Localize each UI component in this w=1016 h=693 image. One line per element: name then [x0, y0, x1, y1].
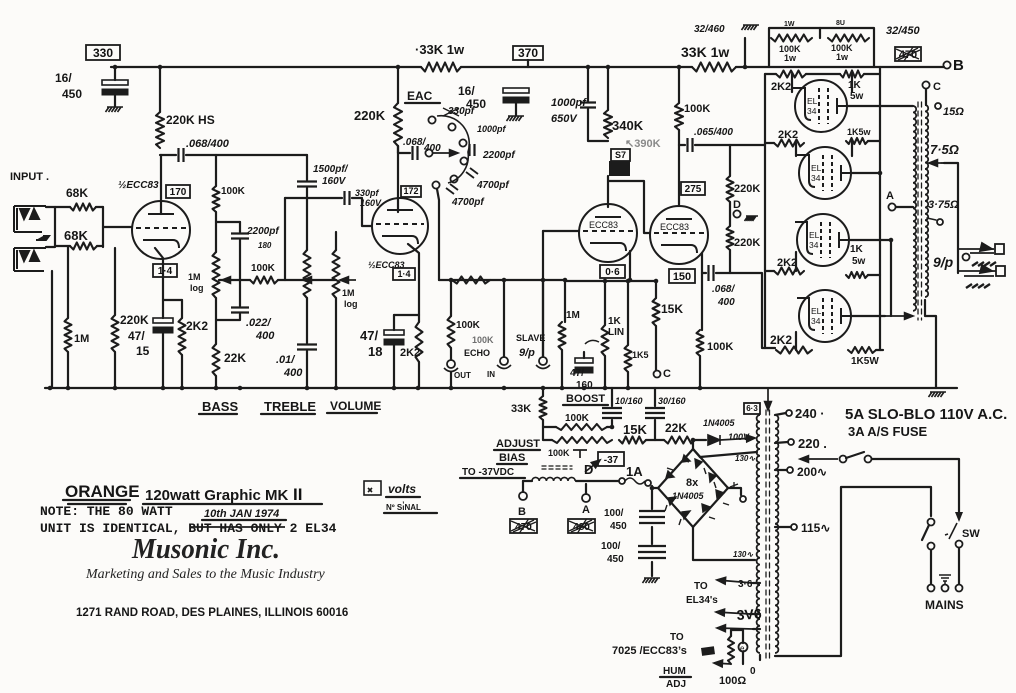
junction bus 700: [698, 386, 703, 391]
svg-text:Musonic Inc.: Musonic Inc.: [131, 533, 280, 565]
wire volume bottom: [335, 298, 337, 388]
wire 340K top: [607, 67, 609, 110]
svg-text:HUM: HUM: [663, 666, 686, 677]
svg-text:16/: 16/: [458, 84, 475, 98]
resistor 100K slope: [213, 186, 220, 212]
wire B+ rail seg2: [461, 66, 692, 68]
ground by 32/460: [742, 25, 760, 30]
switch contact 5: [450, 175, 457, 182]
wire 130 upper tap: [693, 449, 700, 457]
svg-text:3·6: 3·6: [738, 579, 753, 590]
junction bus 504: [502, 386, 507, 391]
wire FAC to preamp bus: [437, 189, 439, 280]
svg-text:240 ·: 240 ·: [795, 406, 825, 421]
svg-text:1w: 1w: [836, 52, 849, 62]
capacitor 16/450 second: [503, 88, 529, 103]
output transformer secondary: [925, 105, 928, 297]
node label 170 box: [166, 185, 190, 198]
junction bridge left: [650, 486, 655, 491]
svg-text:33K 1w: 33K 1w: [681, 44, 729, 60]
speaker jack 1: [958, 243, 1004, 266]
svg-text:32/460: 32/460: [694, 24, 725, 35]
wire V4 cathode: [701, 253, 703, 273]
wire 2200pf branch top: [216, 221, 240, 223]
svg-text:32/450: 32/450: [886, 25, 921, 37]
underline ADJUST: [494, 449, 540, 451]
pentode EL34 no.3: [795, 214, 849, 266]
wire 33K to row1: [543, 420, 556, 427]
wire V2 plate lead: [397, 146, 399, 212]
output transformer primary: [913, 106, 916, 311]
node label 370 box: [513, 46, 543, 60]
capacitor 330pf coupling: [345, 191, 350, 205]
wire HT mid2: [651, 527, 653, 544]
wire bridge top feed: [692, 440, 694, 449]
wire 2K2 bottom: [181, 355, 183, 388]
bridge rectifier diamond: [658, 449, 728, 527]
PT core dash 1: [765, 410, 767, 658]
strikethrough BUT HAS ONLY: [190, 526, 285, 528]
node label 330 box: [86, 45, 120, 60]
wire 1M div bottom: [561, 350, 563, 388]
svg-text:volts: volts: [388, 482, 416, 496]
svg-text:INPUT .: INPUT .: [10, 171, 49, 183]
wire bus end drop: [935, 385, 937, 388]
svg-text:5A SLO-BLO 110V A.C.: 5A SLO-BLO 110V A.C.: [845, 406, 1007, 423]
junction rail 115: [113, 65, 118, 70]
junction bus 163: [161, 386, 166, 391]
capacitor 16/450 first: [102, 80, 128, 95]
wire V3 plate lead: [607, 176, 609, 207]
terminal D: [733, 210, 740, 217]
resistor 2K2 g2: [774, 140, 804, 147]
wire 7.5 to jacks: [944, 163, 958, 273]
junction echo in drop: [502, 278, 507, 283]
wire FAC lead: [398, 152, 410, 154]
node label 275 box: [681, 182, 705, 195]
underline TO37: [460, 477, 525, 479]
triode V1 half ECC83: [132, 201, 190, 259]
capacitor .068/400 interstage: [179, 148, 184, 162]
junction bus 216: [214, 386, 219, 391]
wiper arrow volume: [340, 277, 356, 284]
wire A jack drop: [585, 484, 587, 494]
svg-text:2K2: 2K2: [400, 347, 420, 359]
switch contact 3: [459, 139, 466, 146]
underline volts: [386, 496, 420, 498]
arrowhead down SW: [955, 512, 963, 522]
capacitor 47/15 cathode: [153, 318, 173, 333]
resistor 2K2 V2 cathode: [416, 322, 423, 362]
svg-text:100/: 100/: [601, 541, 621, 552]
svg-text:100K: 100K: [565, 413, 590, 424]
wire plate4 to OT: [851, 315, 885, 317]
wire .022 to bass bottom: [216, 314, 240, 320]
resistor 15K bias: [619, 437, 646, 444]
wire 15K bot: [655, 326, 657, 370]
capacitor 30/160: [645, 408, 665, 418]
wire 1M drop top: [67, 247, 69, 318]
svg-text:650V: 650V: [551, 113, 578, 125]
wire grid to V1: [103, 226, 132, 228]
svg-text:15K: 15K: [661, 302, 683, 316]
junction 15K: [654, 279, 659, 284]
mains pole1 top: [928, 519, 935, 526]
wire B+ rail seg3: [736, 66, 944, 68]
terminal C: [922, 81, 929, 88]
wire 10/160 bot: [611, 420, 613, 427]
capacitor 10/160: [602, 408, 622, 418]
node label -37 box: [598, 452, 624, 466]
tap 200 lead: [775, 469, 787, 471]
svg-text:2K2: 2K2: [771, 81, 791, 93]
selector contact 2: [865, 456, 872, 463]
wire g3 into tube: [795, 252, 797, 271]
wire k3 to screen rail: [868, 274, 880, 276]
wire 2K2 top: [181, 300, 183, 318]
svg-text:·33K 1w: ·33K 1w: [415, 42, 465, 57]
wire grid bus vertical: [764, 74, 766, 348]
wiper arrow bass: [222, 277, 242, 284]
switch contact 2: [448, 123, 455, 130]
resistor 1K 5w k1: [840, 71, 864, 78]
power transformer secondary winding: [757, 415, 760, 653]
wire treble bot1: [306, 298, 308, 343]
earth symbol: [939, 575, 951, 585]
capacitor .068/400 FAC: [413, 146, 418, 160]
wire 10/160 top: [611, 388, 613, 406]
svg-text:EL: EL: [807, 96, 818, 106]
tap 3.75 link: [927, 218, 936, 220]
svg-text:8U: 8U: [836, 20, 845, 27]
svg-text:TREBLE: TREBLE: [264, 399, 316, 414]
terminal B heater: [519, 492, 527, 500]
wire volume top: [335, 232, 337, 250]
wire 68K top feed: [55, 206, 70, 208]
svg-text:2K2: 2K2: [770, 333, 792, 347]
wire .065 right: [695, 144, 765, 146]
svg-text:TO: TO: [694, 581, 708, 592]
wire selector to SW: [872, 459, 959, 516]
svg-text:1M: 1M: [566, 310, 580, 321]
svg-text:BASS: BASS: [202, 399, 238, 414]
svg-text:B: B: [953, 57, 964, 74]
mains pole1 wire: [930, 550, 932, 584]
wire 2K2 branch: [163, 299, 182, 301]
svg-text:VOLUME: VOLUME: [330, 399, 381, 413]
wire echo in drop: [503, 280, 505, 356]
capacitor 100/450 first: [639, 511, 665, 523]
svg-text:68K: 68K: [66, 186, 88, 200]
resistor 2K2 g4: [776, 347, 812, 354]
svg-text:1·4: 1·4: [397, 269, 410, 279]
potentiometer bias 100K: [573, 450, 587, 458]
terminal 220: [788, 439, 794, 445]
svg-text:100K: 100K: [684, 103, 710, 115]
humdinger wiper: [739, 643, 748, 652]
wire echo jack gnd: [450, 372, 452, 388]
wire slave drop: [542, 280, 544, 356]
svg-text:BOOST: BOOST: [566, 393, 605, 405]
svg-text:.068/: .068/: [712, 284, 735, 295]
svg-text:ECC83: ECC83: [589, 220, 618, 230]
resistor 100K bias row1: [556, 424, 607, 430]
svg-text:BIAS: BIAS: [499, 452, 525, 464]
wire jack frame: [46, 207, 55, 247]
capacitor 4700pf FAC lower: [446, 184, 458, 194]
svg-text:1M: 1M: [342, 288, 355, 298]
svg-text:9/p: 9/p: [933, 254, 954, 270]
terminal 3.75: [937, 219, 943, 225]
wire 330pf feed: [285, 197, 342, 199]
resistor 2K2 g3: [774, 268, 804, 275]
junction bus 182: [180, 386, 185, 391]
arrow 3V6: [716, 609, 750, 616]
wire 1K lin bot: [604, 356, 606, 388]
wire 100K 1w bracket: [769, 28, 874, 67]
ground below 16/450 second: [507, 116, 525, 121]
svg-text:150: 150: [673, 271, 691, 283]
resistor 220K HS: [156, 112, 164, 148]
volts checkbox: [364, 481, 381, 495]
resistor 1K 5w k3: [846, 272, 868, 278]
wire 47/18 branch: [394, 314, 419, 316]
capacitor .022/400 tone: [231, 308, 249, 313]
scribble over 330pf: [443, 108, 459, 116]
wire C to coil: [925, 89, 927, 105]
svg-text:A: A: [582, 504, 590, 516]
wire 100K 1W top: [678, 67, 680, 103]
triode V2 half ECC83: [372, 198, 428, 254]
speaker jack 2: [958, 265, 1005, 288]
resistor 15K PI tail: [653, 298, 660, 326]
svg-text:16/: 16/: [55, 71, 72, 85]
slave hook: [536, 365, 550, 369]
svg-text:100K: 100K: [221, 186, 246, 197]
junction bus 628: [626, 386, 631, 391]
resistor 100K slave link: [452, 277, 490, 284]
junction ecap 10-160: [610, 425, 615, 430]
svg-text:2200pf: 2200pf: [246, 226, 280, 237]
junction rail 608: [606, 65, 611, 70]
svg-text:400: 400: [717, 297, 735, 308]
svg-text:4700pf: 4700pf: [476, 180, 510, 191]
svg-text:10/160: 10/160: [615, 396, 643, 406]
potentiometer VOLUME 1M log: [333, 250, 340, 298]
junction plate3: [889, 238, 894, 243]
svg-text:SLAVE: SLAVE: [516, 333, 545, 343]
svg-text:450: 450: [610, 521, 627, 532]
svg-text:330: 330: [93, 46, 113, 60]
wire row3 left: [765, 270, 774, 272]
junction rail 588: [586, 65, 591, 70]
wire plate2 join: [851, 172, 880, 174]
wire PI out to grid bus: [716, 273, 775, 348]
underline BIAS: [497, 463, 527, 465]
svg-text:370: 370: [518, 46, 538, 60]
dark blob 180: [701, 646, 715, 656]
capacitor 47/160: [575, 358, 593, 373]
resistor 33K 1w second: [692, 63, 736, 72]
wire 1K5 top: [627, 280, 629, 345]
mains pin 1: [928, 585, 935, 592]
svg-text:220K: 220K: [734, 183, 760, 195]
svg-text:LIN: LIN: [608, 327, 624, 338]
potentiometer TREBLE: [304, 250, 311, 298]
capacitor 47/18 cathode: [384, 330, 404, 345]
svg-text:1K: 1K: [848, 80, 862, 91]
svg-text:100K: 100K: [251, 263, 276, 274]
svg-text:220K: 220K: [354, 108, 386, 123]
ground HT caps: [643, 578, 661, 583]
terminal C lower: [654, 371, 661, 378]
svg-text:1000pf: 1000pf: [477, 124, 507, 134]
svg-text:EAC: EAC: [407, 89, 433, 103]
wire bass pot bottom: [215, 298, 217, 344]
svg-text:B: B: [518, 506, 526, 518]
fuse end 1: [619, 478, 625, 484]
wire bracket mid tick: [819, 28, 821, 38]
wire HT mid: [651, 486, 653, 509]
resistor 220K cathode-ish: [112, 315, 119, 352]
svg-text:6·3: 6·3: [746, 404, 758, 413]
wire B+ rail seg1: [111, 66, 421, 68]
wire 2200pf v1: [239, 222, 241, 232]
svg-text:34: 34: [811, 316, 821, 326]
svg-text:D: D: [584, 462, 593, 477]
wire row2 left: [765, 142, 774, 144]
SW slash: [945, 523, 957, 539]
wire bias row2 start: [543, 427, 552, 440]
wire 130 tap lead: [700, 452, 757, 457]
junction 1M div: [563, 278, 568, 283]
capacitor 1000pf 650V: [580, 103, 596, 108]
node label 172 box: [401, 186, 421, 197]
mains pole2 bottom: [956, 541, 963, 548]
wire 220K mid drop bot: [114, 352, 116, 388]
svg-text:3A A/S FUSE: 3A A/S FUSE: [848, 424, 928, 439]
svg-text:1N4005: 1N4005: [672, 491, 705, 501]
svg-text:330pf: 330pf: [355, 188, 380, 198]
svg-text:2K2: 2K2: [777, 257, 797, 269]
node label S7 box: [611, 149, 630, 161]
svg-text:Marketing and Sales to the Mus: Marketing and Sales to the Music Industr…: [85, 567, 326, 582]
terminal B: [943, 61, 950, 68]
wire 47/18 drop: [393, 315, 395, 330]
arrow bias to PT: [720, 435, 755, 442]
echo out hook: [444, 368, 458, 372]
junction bridge feed: [691, 438, 696, 443]
svg-text:1K5: 1K5: [632, 350, 649, 360]
fuse squiggle: [625, 478, 645, 484]
wire S7 to V4 grid: [609, 181, 650, 233]
wire V2 plate from rail: [397, 67, 399, 103]
wire 370 box stub: [527, 60, 529, 67]
wire divider mid: [729, 202, 731, 226]
svg-text:100K: 100K: [548, 448, 570, 458]
wire 30/160 bot: [654, 420, 656, 440]
svg-text:1K5W: 1K5W: [851, 356, 879, 367]
svg-text:log: log: [190, 283, 204, 293]
svg-text:400: 400: [255, 330, 275, 342]
junction bus 543: [541, 386, 546, 391]
wire g2 into tube: [795, 143, 797, 156]
OT core dash 2: [921, 102, 923, 320]
wire 1K5 bot: [627, 372, 629, 388]
resistor 22K bass: [213, 344, 220, 376]
switch contact 6: [432, 181, 439, 188]
junction rail 160: [158, 65, 163, 70]
tap 240 lead: [775, 413, 786, 415]
wire jack sleeve drop: [51, 271, 53, 388]
mains pin earth: [942, 585, 949, 592]
wire V3 grid drop: [542, 231, 544, 356]
node label 1.4 box: [153, 264, 177, 277]
switch contact 1: [428, 116, 435, 123]
junction V3 grid bus: [541, 278, 546, 283]
svg-text:SW: SW: [962, 528, 980, 540]
svg-text:4700pf: 4700pf: [451, 197, 485, 208]
capacitor 2200pf FAC: [470, 144, 475, 156]
arrow into -37: [585, 460, 600, 472]
wire tone mid right: [278, 279, 336, 281]
svg-text:.068/400: .068/400: [186, 138, 230, 150]
underline HUM: [660, 676, 691, 678]
svg-text:15K: 15K: [623, 422, 647, 437]
junction bus 605: [603, 386, 608, 391]
wire 100K tail top: [701, 273, 703, 330]
capacitor 4700pf FAC upper: [466, 168, 478, 178]
svg-text:15: 15: [136, 344, 150, 358]
wire k1 into tube: [851, 74, 853, 92]
svg-text:340K: 340K: [612, 118, 644, 133]
junction bus 240: [238, 386, 243, 391]
svg-text:47/: 47/: [570, 368, 584, 379]
svg-text:EL: EL: [811, 306, 822, 316]
tap lower lead: [753, 628, 760, 630]
svg-text:1K: 1K: [608, 316, 622, 327]
resistor 1M slave: [559, 322, 566, 350]
pentode EL34 no.4: [797, 290, 851, 342]
input jack J1: [14, 206, 46, 232]
wire g4 into tube: [795, 332, 797, 350]
node label 470 box: [895, 47, 921, 61]
wire 1M div top: [564, 280, 566, 322]
wire cathode join: [702, 272, 706, 274]
junction plate2: [878, 171, 883, 176]
svg-text:C: C: [933, 81, 941, 93]
wire row2 to diode: [695, 439, 706, 441]
terminal 240: [786, 410, 792, 416]
junction bus 50: [48, 386, 53, 391]
svg-text:100Ω: 100Ω: [719, 675, 746, 687]
wire 330 box drop: [114, 67, 116, 80]
wire g1 into tube: [791, 74, 793, 92]
scribble plus: [730, 482, 738, 489]
svg-text:1K: 1K: [850, 244, 864, 255]
resistor 100K tone mid: [250, 277, 278, 284]
svg-text:34: 34: [811, 173, 821, 183]
switch rotor arc: [437, 116, 469, 183]
ground at D: [745, 216, 759, 221]
wire tail bottom: [699, 356, 701, 388]
wire 1K lin top: [604, 280, 606, 325]
svg-text:NOTE: THE 80 WATT: NOTE: THE 80 WATT: [40, 504, 173, 519]
capacitor .065/400 coupling: [688, 138, 693, 152]
wire plate1 to OT: [847, 105, 913, 107]
svg-text:ADJ: ADJ: [666, 679, 686, 690]
underline date: [202, 519, 286, 521]
